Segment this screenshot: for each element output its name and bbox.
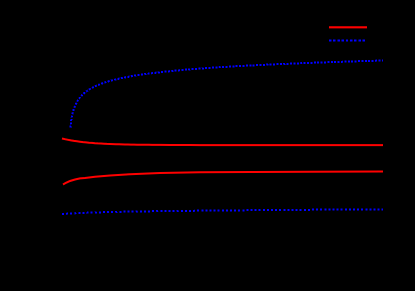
upper red curve	[62, 139, 383, 146]
top blue dotted curve	[70, 61, 383, 128]
legend red line	[329, 26, 367, 28]
bottom blue dotted line	[62, 209, 383, 214]
lower red curve	[63, 172, 383, 185]
legend blue dotted line	[329, 39, 367, 41]
